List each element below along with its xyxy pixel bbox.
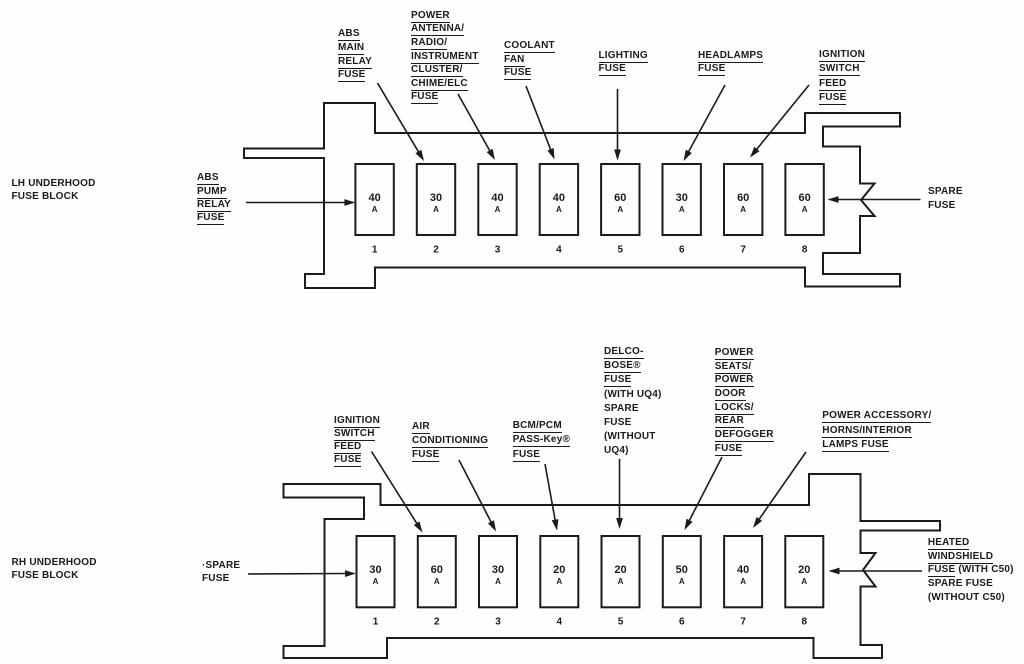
svg-text:3: 3 (495, 245, 501, 256)
svg-text:A: A (618, 577, 624, 586)
svg-text:5: 5 (618, 617, 624, 628)
fuse 5 (LH block, 60 A) (601, 164, 639, 256)
label: POWER SEATS/POWER DOOR LOCKS/REAR DEFOGGER FUSE (715, 348, 774, 458)
svg-text:40: 40 (368, 192, 380, 204)
fuse 3 (RH block, 30 A) (479, 536, 517, 628)
arrow: coolant fan fuse to fuse 4 (526, 86, 555, 160)
svg-text:1: 1 (372, 245, 378, 256)
svg-text:30: 30 (492, 564, 504, 576)
svg-text:2: 2 (433, 245, 439, 256)
arrow: spare fuse to RH fuse 1 (248, 570, 356, 577)
label: HEADLAMPS FUSE (698, 51, 763, 77)
label: POWER ACCESSORY/HORNS/INTERIOR LAMPS FUSE (822, 411, 931, 455)
label: RH UNDERHOOD FUSE BLOCK (12, 558, 97, 584)
svg-text:A: A (740, 205, 746, 214)
label: LH UNDERHOOD FUSE BLOCK (12, 179, 96, 204)
svg-text:A: A (801, 577, 807, 586)
svg-text:A: A (740, 577, 746, 586)
svg-text:20: 20 (798, 564, 810, 576)
svg-text:20: 20 (553, 564, 565, 576)
label: ABS MAIN RELAY FUSE (338, 29, 372, 85)
svg-text:2: 2 (434, 617, 440, 628)
arrow: power seats/door locks fuse to RH fuse 6 (685, 457, 723, 530)
svg-text:A: A (617, 205, 623, 214)
svg-text:4: 4 (556, 245, 562, 256)
svg-text:1: 1 (373, 617, 379, 628)
fuse 7 (RH block, 40 A) (724, 536, 762, 628)
svg-text:50: 50 (676, 564, 688, 576)
arrow: Delco-Bose fuse to RH fuse 5 (616, 459, 623, 529)
arrow: headlamps fuse to fuse 6 (684, 85, 726, 161)
svg-text:A: A (679, 205, 685, 214)
label: POWER ANTENNA/RADIO/INSTRUMENT CLUSTER/CHIME/ELC FUSE (411, 11, 479, 106)
fuse 3 (LH block, 40 A) (478, 164, 516, 256)
fuse 7 (LH block, 60 A) (724, 164, 762, 256)
svg-text:A: A (556, 205, 562, 214)
svg-text:60: 60 (798, 192, 810, 204)
arrow: lighting fuse to fuse 5 (614, 89, 621, 161)
svg-text:A: A (495, 577, 501, 586)
fuse 5 (RH block, 20 A) (602, 536, 640, 628)
svg-text:60: 60 (737, 192, 749, 204)
label: HEATED WINDSHIELD FUSE (WITH C50) SPARE FUSE (WITHOUT C50) (928, 538, 1014, 606)
fuse 8 (RH block, 20 A) (785, 536, 823, 628)
RH underhood fuse block outline (284, 474, 941, 658)
svg-text:7: 7 (740, 245, 746, 256)
fuse 8 (LH block, 60 A) (785, 164, 823, 256)
fuse 6 (RH block, 50 A) (663, 536, 701, 628)
LH underhood fuse block outline (244, 103, 900, 288)
fuse 4 (LH block, 40 A) (540, 164, 578, 256)
fuse 2 (LH block, 30 A) (417, 164, 455, 256)
label: DELCO-BOSE FUSE (WITH UQ4) / SPARE FUSE (WITHOUT UQ4) (604, 347, 662, 460)
svg-text:A: A (679, 577, 685, 586)
svg-text:8: 8 (802, 245, 808, 256)
svg-text:40: 40 (491, 192, 503, 204)
svg-text:8: 8 (802, 617, 808, 628)
arrow: heated windshield fuse to RH fuse 8 (829, 568, 923, 575)
svg-text:A: A (556, 577, 562, 586)
fuse 2 (RH block, 60 A) (418, 536, 456, 628)
label: BCM/PCM PASS-Key FUSE (513, 421, 570, 466)
arrow: ABS pump relay fuse to fuse 1 (246, 199, 355, 206)
arrow: power accessory/horns fuse to RH fuse 7 (753, 452, 806, 528)
arrow: ignition switch feed fuse to fuse 7 (750, 85, 809, 158)
arrow: power antenna/radio fuse to fuse 3 (458, 94, 495, 160)
svg-text:4: 4 (557, 617, 563, 628)
svg-text:40: 40 (553, 192, 565, 204)
arrow: ignition switch feed fuse to RH fuse 2 (372, 452, 423, 533)
label: ABS PUMP RELAY FUSE (197, 173, 231, 227)
svg-text:30: 30 (369, 564, 381, 576)
arrow: air conditioning fuse to RH fuse 3 (459, 460, 496, 532)
svg-text:6: 6 (679, 617, 685, 628)
arrow: ABS main relay fuse to fuse 2 (378, 83, 425, 161)
fuse 4 (RH block, 20 A) (540, 536, 578, 628)
svg-text:A: A (372, 205, 378, 214)
label: IGNITION SWITCH FEED FUSE (RH) (334, 416, 380, 469)
svg-text:30: 30 (676, 192, 688, 204)
label: LIGHTING FUSE (599, 51, 648, 77)
svg-text:6: 6 (679, 245, 685, 256)
svg-text:A: A (373, 577, 379, 586)
svg-text:7: 7 (740, 617, 746, 628)
fuse 1 (LH block, 40 A) (355, 164, 393, 256)
label: COOLANT FAN FUSE (504, 41, 555, 82)
svg-text:A: A (434, 577, 440, 586)
svg-text:60: 60 (431, 564, 443, 576)
arrow: spare fuse to fuse 8 (828, 196, 921, 203)
svg-text:A: A (433, 205, 439, 214)
label: AIR CONDITIONING FUSE (412, 422, 488, 463)
svg-text:20: 20 (614, 564, 626, 576)
svg-text:A: A (802, 205, 808, 214)
fuse 1 (RH block, 30 A) (357, 536, 395, 628)
svg-text:30: 30 (430, 192, 442, 204)
label: SPARE FUSE (LH) (928, 187, 963, 214)
label: SPARE FUSE (RH) (202, 561, 240, 587)
fuse 6 (LH block, 30 A) (663, 164, 701, 256)
arrow: BCM/PCM PASS-Key fuse to RH fuse 4 (545, 464, 558, 531)
svg-text:5: 5 (618, 245, 624, 256)
svg-text:60: 60 (614, 192, 626, 204)
svg-text:3: 3 (495, 617, 501, 628)
svg-text:A: A (495, 205, 501, 214)
label: IGNITION SWITCH FEED FUSE (LH) (819, 50, 865, 108)
svg-text:40: 40 (737, 564, 749, 576)
